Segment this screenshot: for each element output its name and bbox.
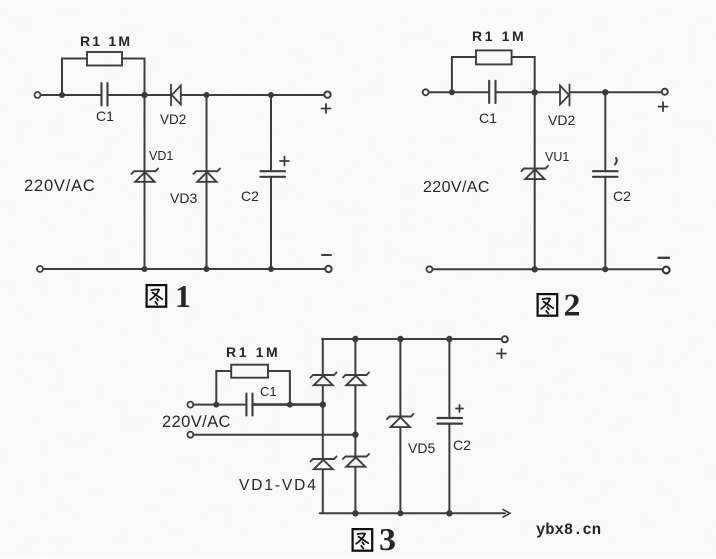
node junction B2: [532, 89, 538, 95]
wire VD5 column: [399, 339, 401, 513]
capacitor C1 plates circuit3: [246, 394, 252, 416]
diode VD4 bridge bottom-right: [343, 454, 369, 467]
wire R1 branch right lead circuit3: [268, 371, 290, 405]
wire top rail circuit3: [322, 338, 502, 340]
node junction A1: [59, 92, 65, 98]
wire bridge left column: [322, 339, 324, 513]
node bottom rail VD5: [397, 510, 403, 516]
wire R1 branch left lead circuit3: [216, 371, 231, 405]
node junction B1: [141, 92, 147, 98]
svg-text:VU1: VU1: [545, 150, 569, 164]
node junction C1bot: [204, 266, 210, 272]
node bridge mid-right: [352, 432, 358, 438]
junction node dots circuit1: [59, 92, 274, 272]
wire input2 to bridge mid-right: [193, 434, 355, 436]
node bottom rail right column: [352, 510, 358, 516]
node bottom rail C2: [446, 510, 452, 516]
label figure 3 (drawn hanzi): [353, 529, 373, 551]
zener diode VD3: [194, 169, 221, 182]
svg-text:C2: C2: [613, 188, 631, 204]
node junction D1bot: [268, 266, 274, 272]
node junction C2top: [602, 89, 608, 95]
arrow end bottom rail circuit3: [503, 510, 510, 518]
diode VD2 bridge top-right: [343, 373, 369, 386]
terminal input bottom-left circuit1: [37, 266, 43, 272]
svg-text:VD1-VD4: VD1-VD4: [239, 477, 318, 494]
svg-text:220V/AC: 220V/AC: [24, 177, 96, 195]
plus mark C2 circuit3: [456, 405, 463, 412]
plus sign C2 circuit1: [280, 157, 289, 166]
minus sign circuit2: [659, 257, 670, 259]
resistor R1 body circuit3: [231, 365, 268, 378]
wire top rail right (VD2 to + terminal): [181, 94, 324, 96]
plus mark C2 circuit2: [615, 158, 617, 165]
svg-text:VD3: VD3: [170, 190, 197, 206]
wire top rail middle circuit2: [496, 91, 560, 93]
wire C2 branch bottom circuit2: [604, 177, 606, 269]
node top rail right column: [352, 336, 358, 342]
svg-text:VD1: VD1: [149, 149, 173, 163]
svg-text:C1: C1: [96, 108, 114, 124]
svg-text:ybx8.cn: ybx8.cn: [536, 521, 601, 539]
svg-text:C2: C2: [453, 437, 471, 453]
wire VD3 branch vertical: [206, 95, 208, 269]
capacitor C1 plates: [102, 83, 108, 106]
label figure 2 (drawn hanzi): [538, 294, 558, 316]
terminal output plus circuit1: [324, 92, 330, 98]
svg-text:C2: C2: [241, 188, 259, 204]
wire C2 branch vertical circuit2: [604, 92, 606, 171]
wire bottom rail circuit3 with arrow: [320, 512, 505, 514]
wire bottom rail circuit2: [433, 268, 663, 270]
wire R1 branch right lead: [122, 59, 145, 96]
node junction B2bot: [532, 266, 538, 272]
wire top rail right circuit2: [570, 91, 662, 93]
terminal input bottom-left circuit2: [427, 266, 433, 272]
minus sign circuit1: [322, 254, 331, 256]
junction node dots circuit3: [213, 336, 452, 517]
capacitor C1 plates circuit2: [489, 81, 495, 103]
svg-text:3: 3: [379, 521, 396, 557]
svg-text:C1: C1: [479, 110, 497, 126]
capacitor C2 plates circuit3: [438, 418, 463, 424]
svg-text:1: 1: [175, 278, 191, 314]
svg-text:220V/AC: 220V/AC: [423, 179, 490, 196]
wire input1 to C1: [193, 404, 246, 406]
node junction A2: [449, 89, 455, 95]
terminal output minus circuit2: [663, 267, 670, 274]
wire C2 column bottom circuit3: [448, 424, 450, 514]
zener diode VD1: [132, 169, 159, 182]
svg-text:VD5: VD5: [408, 440, 435, 456]
node junction C1top: [204, 92, 210, 98]
node junction B1bot: [142, 266, 148, 272]
junction node dots circuit2: [449, 89, 609, 272]
capacitor C2 plates circuit1: [261, 171, 286, 177]
svg-text:R1 1M: R1 1M: [80, 33, 132, 49]
node top rail VD5: [397, 336, 403, 342]
svg-text:R1 1M: R1 1M: [472, 28, 526, 44]
svg-text:2: 2: [564, 287, 581, 323]
wire top rail left (C1 left): [41, 94, 102, 96]
plus sign output circuit1: [322, 104, 331, 113]
terminal input2 circuit3: [187, 432, 193, 438]
wire C1 to bridge (thick): [253, 403, 324, 406]
node bridge mid-left: [320, 401, 326, 407]
terminal output plus circuit2: [662, 89, 668, 95]
wire C2 column top circuit3: [448, 339, 450, 418]
plus sign output circuit2: [659, 102, 668, 111]
diode VD3 bridge bottom-left: [311, 457, 337, 470]
plus sign output circuit3: [497, 349, 506, 358]
diode VD2 circuit2 (triangle pointing right, cathode bar right): [560, 85, 570, 106]
label figure 1 (drawn hanzi): [147, 285, 167, 307]
node junction R1 left circuit3: [213, 402, 219, 408]
terminal input top-left circuit1: [35, 92, 41, 98]
wire VD1 branch vertical: [144, 95, 146, 269]
wire VU1 branch vertical circuit2: [534, 92, 536, 269]
wire C2 branch vertical top: [270, 95, 272, 171]
terminal input1 circuit3: [187, 402, 193, 408]
svg-text:220V/AC: 220V/AC: [162, 413, 231, 431]
terminal output plus circuit3: [502, 336, 508, 342]
wire R1 branch right lead circuit2: [512, 57, 535, 92]
wire R1 branch left lead: [62, 59, 87, 96]
wire R1 branch left lead circuit2: [452, 57, 476, 92]
zener diode VD5: [387, 414, 414, 427]
svg-text:R1 1M: R1 1M: [226, 344, 280, 360]
capacitor C2 plates circuit2: [593, 171, 618, 177]
terminal input top-left circuit2: [423, 89, 429, 95]
node top rail C2: [446, 336, 452, 342]
wire top rail middle (C1 to VD2): [108, 94, 171, 96]
svg-text:C1: C1: [260, 384, 277, 399]
resistor R1 body circuit2: [476, 50, 512, 64]
diode VD1 bridge top-left: [311, 373, 337, 386]
wire C2 branch vertical bottom: [270, 177, 272, 269]
terminal output minus circuit1: [325, 266, 331, 272]
svg-text:VD2: VD2: [548, 112, 575, 128]
node junction D1top: [268, 92, 274, 98]
wire bridge right column: [354, 339, 356, 513]
node junction R1 right circuit3: [287, 402, 293, 408]
wire bottom rail circuit1: [43, 268, 325, 270]
node junction C2bot: [602, 266, 608, 272]
resistor R1 body: [87, 52, 122, 66]
zener diode VU1: [522, 166, 549, 179]
wire top rail left circuit2: [429, 91, 489, 93]
svg-text:VD2: VD2: [160, 112, 186, 127]
diode VD2 circuit1 (cathode bar left, triangle pointing left): [171, 85, 181, 106]
